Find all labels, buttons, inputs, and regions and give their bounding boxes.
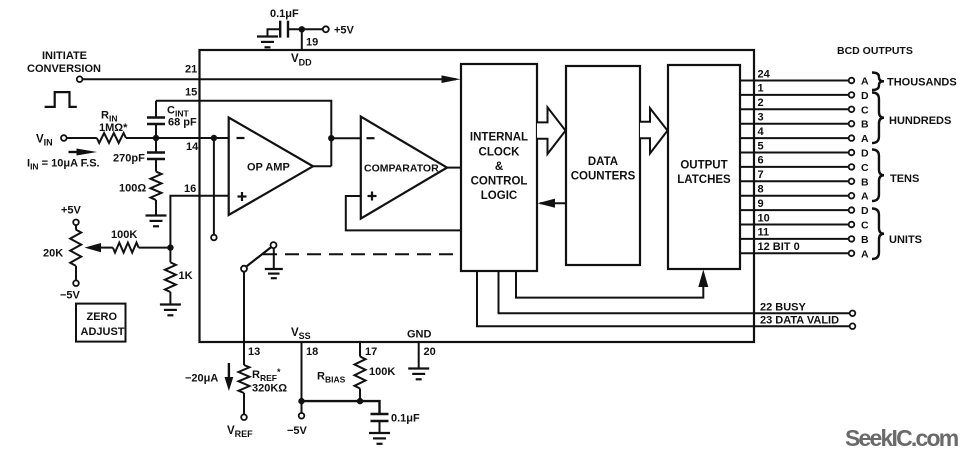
wire counters to clock feedback arrow	[540, 202, 566, 204]
wire dashed switch control	[263, 253, 461, 255]
svg-text:1: 1	[758, 83, 764, 95]
svg-text:1K: 1K	[179, 270, 193, 282]
terminal VREF	[241, 414, 247, 420]
terminal BUSY	[850, 311, 856, 317]
svg-text:0.1μF: 0.1μF	[391, 413, 420, 425]
svg-text:A: A	[861, 248, 869, 260]
svg-text:C: C	[861, 104, 869, 116]
wire op-amp output	[313, 165, 331, 167]
wire output pin 6 (C)	[740, 166, 849, 168]
wire VIN to RIN	[67, 137, 97, 139]
wire DATA VALID pin 23	[477, 271, 850, 326]
wire output pin 24 (A)	[740, 80, 849, 82]
wire pin 16 to op-amp +	[170, 196, 228, 248]
wire pin 19 stub	[301, 29, 303, 50]
terminal -5V (pot)	[73, 280, 79, 286]
resistor RBIAS 100K	[359, 342, 361, 357]
wire output pin 12 (A)	[740, 252, 849, 254]
svg-text:HUNDREDS: HUNDREDS	[889, 115, 951, 127]
-20uA arrow	[228, 363, 230, 383]
IC outer box U1	[200, 50, 755, 342]
junction -5V node	[298, 398, 304, 404]
svg-text:17: 17	[365, 346, 377, 358]
wire node14 line	[126, 137, 229, 139]
svg-text:23 DATA VALID: 23 DATA VALID	[760, 315, 839, 327]
svg-text:6: 6	[758, 155, 764, 167]
wire output pin 1 (D)	[740, 94, 849, 96]
svg-text:20: 20	[424, 346, 436, 358]
svg-text:1MΩ*: 1MΩ*	[99, 122, 128, 134]
svg-text:D: D	[861, 205, 869, 217]
bus arrow counters to latches	[640, 108, 668, 153]
ZERO ADJUST box	[76, 304, 126, 342]
block internal clock & control logic	[461, 64, 537, 271]
svg-text:68 pF: 68 pF	[168, 117, 197, 129]
junction testpoint stub	[211, 135, 217, 141]
IIN arrow	[69, 151, 81, 153]
junction RBIAS/cap	[357, 398, 363, 404]
bus arrow clock to counters	[537, 107, 566, 154]
resistor 1K	[169, 248, 171, 263]
svg-text:8: 8	[758, 184, 764, 196]
svg-text:DATA: DATA	[588, 156, 618, 168]
wire BUSY pin 22	[499, 271, 850, 313]
svg-text:14: 14	[186, 141, 199, 153]
svg-text:12 BIT 0: 12 BIT 0	[758, 241, 800, 253]
wire 100K to node	[139, 247, 171, 249]
wire output pin 4 (A)	[740, 137, 849, 139]
svg-text:CLOCK: CLOCK	[479, 147, 521, 159]
svg-text:INTERNAL: INTERNAL	[470, 132, 528, 144]
svg-text:100K: 100K	[111, 229, 137, 241]
wire cap to ground	[268, 29, 281, 36]
svg-text:21: 21	[185, 64, 197, 76]
svg-text:9: 9	[758, 198, 764, 210]
svg-text:GND: GND	[407, 329, 432, 341]
svg-text:270pF: 270pF	[113, 153, 145, 165]
svg-text:OP AMP: OP AMP	[247, 162, 290, 174]
svg-text:C: C	[861, 220, 869, 232]
svg-text:18: 18	[306, 346, 318, 358]
svg-text:D: D	[861, 90, 869, 102]
svg-text:BCD OUTPUTS: BCD OUTPUTS	[837, 45, 913, 57]
svg-text:+5V: +5V	[334, 25, 355, 37]
svg-text:15: 15	[185, 87, 197, 99]
wire initiate to pin 21 into clock box with arrowhead	[82, 78, 456, 80]
terminal +5V (top)	[323, 26, 329, 32]
wire -5V rail	[302, 400, 361, 402]
svg-text:−5V: −5V	[60, 290, 81, 302]
brace tens	[872, 150, 884, 202]
wire pin 18	[301, 342, 303, 401]
svg-text:+5V: +5V	[61, 205, 82, 217]
svg-text:LATCHES: LATCHES	[677, 174, 731, 186]
svg-text:B: B	[861, 234, 869, 246]
svg-text:320KΩ: 320KΩ	[252, 383, 287, 395]
op-amp U2	[229, 118, 313, 216]
svg-text:4: 4	[758, 126, 765, 138]
junction zero-adjust node	[167, 244, 173, 250]
wire pin 20	[418, 342, 420, 369]
svg-text:OUTPUT: OUTPUT	[680, 160, 727, 172]
svg-text:11: 11	[758, 227, 770, 239]
wire cap to +5V and pin 19	[288, 28, 323, 30]
resistor 100ohm	[151, 172, 162, 200]
svg-text:B: B	[861, 176, 869, 188]
resistor 100K (wiper)	[113, 243, 139, 253]
svg-text:22 BUSY: 22 BUSY	[760, 302, 807, 314]
svg-text:A: A	[861, 191, 869, 203]
resistor RREF 320K	[239, 365, 250, 393]
wire output pin 3 (B)	[740, 123, 849, 125]
svg-text:CONTROL: CONTROL	[471, 176, 528, 188]
svg-text:−20μA: −20μA	[185, 373, 218, 385]
svg-text:24: 24	[758, 68, 771, 80]
svg-text:5: 5	[758, 140, 764, 152]
wire output pin 2 (C)	[740, 108, 849, 110]
brace hundreds	[872, 93, 884, 144]
svg-text:ZERO: ZERO	[87, 311, 118, 323]
wire output pin 8 (A)	[740, 195, 849, 197]
wire comparator + feedback	[346, 196, 461, 230]
terminal DATA VALID	[850, 323, 856, 329]
svg-text:100K: 100K	[369, 366, 395, 378]
wire testpoint stub	[213, 138, 215, 235]
wire to comparator - input	[331, 137, 361, 139]
svg-text:COMPARATOR: COMPARATOR	[364, 163, 439, 175]
svg-text:19: 19	[306, 37, 318, 49]
wiper arrow	[85, 243, 102, 252]
junction feedback/comparator	[328, 135, 334, 141]
svg-text:IIN = 10μA F.S.: IIN = 10μA F.S.	[27, 158, 100, 172]
wire output pin 7 (B)	[740, 180, 849, 182]
junction VIN node	[153, 135, 159, 141]
terminal testpoint	[211, 235, 217, 241]
svg-text:LOGIC: LOGIC	[481, 190, 517, 202]
comparator U3	[361, 117, 447, 219]
svg-text:&: &	[495, 161, 503, 173]
ground (pin 20)	[408, 369, 429, 380]
wire output pin 11 (B)	[740, 238, 849, 240]
block data counters	[566, 66, 640, 265]
svg-text:13: 13	[248, 346, 260, 358]
ground (100ohm)	[146, 216, 167, 227]
svg-text:10: 10	[758, 212, 770, 224]
ground (switch)	[265, 269, 283, 278]
capacitor CINT 68pF	[147, 101, 197, 138]
brace thousands	[872, 73, 884, 91]
svg-text:CONVERSION: CONVERSION	[27, 63, 101, 75]
wire output pin 10 (C)	[740, 224, 849, 226]
svg-text:ADJUST: ADJUST	[81, 326, 125, 338]
wire comparator output	[447, 167, 461, 169]
ground (1K)	[160, 305, 181, 316]
wire latch enable with up arrow	[516, 271, 703, 298]
capacitor 0.1uF (VDD bypass)	[270, 8, 299, 38]
svg-text:0.1μF: 0.1μF	[270, 8, 299, 20]
wire to VREF terminal	[243, 393, 245, 414]
svg-text:INITIATE: INITIATE	[42, 50, 87, 62]
wire to 0.1uF cap	[360, 401, 380, 413]
wire pin 13	[243, 272, 245, 365]
wire switch to ground	[273, 248, 275, 269]
svg-text:100Ω: 100Ω	[119, 183, 146, 195]
svg-text:20K: 20K	[43, 248, 63, 260]
capacitor 0.1uF (bottom)	[371, 413, 421, 425]
capacitor 270pF	[113, 138, 165, 172]
svg-text:A: A	[861, 76, 869, 88]
wire output pin 9 (D)	[740, 209, 849, 211]
svg-text:3: 3	[758, 112, 764, 124]
resistor RIN 1M	[97, 133, 126, 143]
svg-text:−5V: −5V	[287, 425, 308, 437]
switch S1	[241, 242, 277, 272]
svg-text:C: C	[861, 162, 869, 174]
wire output pin 5 (D)	[740, 152, 849, 154]
svg-text:COUNTERS: COUNTERS	[571, 171, 636, 183]
svg-text:7: 7	[758, 169, 764, 181]
junction pin19	[299, 26, 305, 32]
svg-text:UNITS: UNITS	[889, 234, 922, 246]
svg-text:16: 16	[184, 183, 196, 195]
terminal initiate	[77, 76, 83, 82]
svg-text:TENS: TENS	[890, 173, 919, 185]
terminal -5V	[301, 401, 303, 413]
svg-text:SeekIC.com: SeekIC.com	[845, 425, 959, 451]
pulse symbol	[45, 92, 77, 107]
ground (top bypass)	[257, 37, 278, 48]
svg-text:2: 2	[758, 97, 764, 109]
svg-text:D: D	[861, 148, 869, 160]
svg-text:B: B	[861, 119, 869, 131]
svg-text:THOUSANDS: THOUSANDS	[887, 77, 957, 89]
wire to ground	[155, 200, 157, 216]
ground (0.1uF bottom)	[369, 433, 390, 444]
brace units	[872, 209, 884, 260]
wire pin 15 / CINT feedback	[156, 101, 331, 167]
svg-text:A: A	[861, 133, 869, 145]
potentiometer 20K	[75, 225, 77, 229]
block output latches	[668, 65, 740, 269]
